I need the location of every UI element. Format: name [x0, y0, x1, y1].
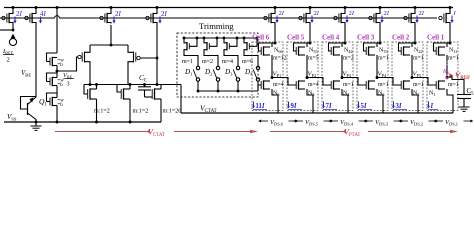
label N1 lower — [429, 91, 435, 98]
wire trim supply — [184, 37, 257, 39]
label 2I current MP3 — [112, 10, 121, 24]
label VDS,1 — [433, 119, 473, 128]
wire VSS rail — [4, 121, 161, 123]
svg-text:m=4: m=4 — [273, 82, 284, 88]
label Cell 1 — [427, 34, 445, 42]
transistor N3 lower (cell 3) — [366, 80, 375, 89]
label m=2 cell 4 upper — [343, 56, 354, 62]
svg-text:m=4: m=4 — [222, 59, 233, 65]
transistor MPc1 (cell 1 top) — [439, 6, 452, 23]
wire trim output bus — [197, 90, 258, 93]
transistor MT1 trim m=1 — [183, 37, 199, 55]
capacitor CC — [138, 85, 152, 98]
label N55 — [309, 48, 318, 55]
label 2I current MP4 — [158, 10, 167, 24]
wire VP4 to next gate — [377, 78, 401, 86]
label m=1 cell 3 upper — [378, 56, 389, 62]
svg-text:2: 2 — [7, 57, 10, 64]
label m=12 cell 6 upper — [273, 56, 287, 62]
transistor N44 (cell 4 upper) — [329, 43, 346, 56]
svg-text:m=1: m=1 — [378, 56, 389, 62]
svg-text:m=12: m=12 — [273, 56, 287, 62]
label VDS,6 — [258, 119, 298, 128]
label VCTAT red — [148, 128, 165, 139]
label 4I current MP2 — [39, 10, 47, 24]
svg-text:11I: 11I — [256, 103, 265, 110]
wire cell 6 source to chain — [272, 89, 278, 113]
label 2I current MP1 — [13, 10, 22, 24]
wire MP1 drain to node — [0, 24, 14, 32]
svg-text:m:1=2: m:1=2 — [133, 109, 149, 115]
transistor MN2 (m:1=2) — [121, 88, 130, 99]
wire MN1 diode loop — [84, 85, 88, 95]
svg-text:Cell 3: Cell 3 — [357, 34, 375, 42]
svg-text:Cell 1: Cell 1 — [427, 34, 445, 42]
svg-text:m=2: m=2 — [202, 59, 213, 65]
label VDS,4 — [328, 119, 368, 128]
label N44 — [344, 48, 353, 55]
wire cell 1 source to chain — [447, 89, 453, 113]
wire cell 4 source to chain — [342, 89, 348, 113]
capacitor CL — [457, 95, 471, 108]
wire cell 5 VP node — [306, 55, 309, 79]
label current 5 — [287, 102, 302, 111]
svg-text:Cell 2: Cell 2 — [392, 34, 410, 42]
switch D2 — [204, 55, 220, 91]
transistor MP1 (2I) — [2, 6, 15, 23]
label VP3 — [343, 71, 352, 79]
wire MN3 source — [160, 99, 162, 122]
svg-text:m=1: m=1 — [448, 56, 459, 62]
label Q1 — [39, 97, 47, 108]
label N11 — [449, 48, 457, 55]
transistor MS2 stack — [47, 73, 65, 88]
svg-text:m=1: m=1 — [413, 56, 424, 62]
label m=1 cell 2 lower — [413, 82, 424, 88]
label m=4 cell 5 lower — [308, 82, 319, 88]
transistor Q1 PNP — [21, 97, 38, 124]
svg-text:m=1: m=1 — [378, 82, 389, 88]
svg-text:2I: 2I — [384, 10, 390, 17]
wire VDD top rail — [4, 7, 453, 9]
wire MN1 source — [95, 99, 98, 123]
svg-text:7I: 7I — [326, 103, 332, 110]
wire stack to VSS — [56, 106, 59, 124]
label VP4 — [378, 71, 387, 79]
transistor MT4 trim m=6 — [243, 37, 259, 55]
label m=4 cell 6 lower — [273, 82, 284, 88]
switch D4 — [244, 55, 260, 91]
label m=1 cell 1 lower — [448, 82, 459, 88]
label 2I cell 5 — [310, 10, 319, 23]
wire cell 6 VP node — [271, 55, 274, 79]
wire MPc4 drain — [344, 24, 347, 45]
svg-text:2I: 2I — [314, 10, 320, 17]
wire VCTAT chain — [181, 112, 453, 114]
label D2 — [204, 68, 213, 77]
svg-text:Cell 4: Cell 4 — [322, 34, 340, 42]
svg-text:m:1=26: m:1=26 — [163, 109, 182, 115]
svg-text:Cell 5: Cell 5 — [287, 34, 305, 42]
wire MD2 gate to MP4 drain — [140, 57, 158, 60]
svg-text:m=1: m=1 — [413, 82, 424, 88]
svg-text:m=2: m=2 — [343, 56, 354, 62]
label N6 lower — [273, 91, 279, 98]
transistor N6 lower (cell 6) — [261, 80, 270, 89]
cell 3 box — [357, 42, 388, 111]
transistor N5 lower (cell 5) — [296, 80, 305, 89]
label I cell 1 — [450, 10, 456, 23]
wire MPc5 drain — [309, 24, 312, 45]
label m:1=2 MN2 — [133, 109, 149, 115]
wire amp output to VCTAT chain — [180, 85, 182, 114]
svg-text:m=1: m=1 — [182, 59, 193, 65]
svg-text:m=6: m=6 — [242, 59, 253, 65]
label D1 — [184, 68, 193, 77]
wire MN2 source — [129, 99, 132, 123]
cell 1 box — [427, 42, 458, 111]
wire VP1 to next gate — [272, 78, 296, 86]
svg-text:N22: N22 — [414, 48, 423, 55]
label m=1 trim — [182, 59, 193, 65]
svg-text:m:1=2: m:1=2 — [94, 109, 110, 115]
svg-text:2I: 2I — [349, 10, 355, 17]
wire trim bus to cell6 gate — [258, 85, 261, 91]
label N3 lower — [378, 91, 384, 98]
transistor MN1 (m:1=2) — [88, 88, 97, 99]
svg-text:3: 3 — [67, 81, 70, 88]
wire cell 3 VP node — [376, 55, 379, 79]
ground symbol VSS — [31, 122, 42, 130]
label VDS,3 — [363, 119, 403, 128]
label Cell 4 — [322, 34, 340, 42]
svg-text:N4: N4 — [343, 91, 350, 98]
wire cell 2 VP node — [411, 55, 414, 79]
label Trimming — [199, 21, 234, 31]
trimming block box — [177, 33, 258, 97]
label D4 — [244, 68, 253, 77]
svg-text:2I: 2I — [161, 10, 168, 18]
svg-text:2I: 2I — [419, 10, 425, 17]
wire MP4 drain line — [156, 24, 158, 85]
label VP5 — [413, 71, 422, 79]
label VDS,5 — [293, 119, 333, 128]
wire cell 5 source to chain — [307, 89, 313, 113]
wire cell 1 VP node — [446, 55, 449, 79]
wire stack trunk from VDD — [55, 6, 60, 53]
svg-text:N66: N66 — [274, 48, 283, 55]
svg-text:N55: N55 — [309, 48, 318, 55]
arrow VPTAT span — [270, 130, 458, 134]
wire VREF to CL — [447, 77, 464, 95]
label N5 lower — [308, 91, 314, 98]
label m=1 cell 4 lower — [343, 82, 354, 88]
cell 6 box — [252, 42, 283, 111]
wire MN2 drain — [129, 85, 131, 90]
wire MPc1 drain — [449, 24, 452, 45]
label 2I cell 3 — [380, 10, 389, 23]
cell 2 box — [392, 42, 423, 111]
switch D1 — [184, 55, 200, 91]
wire cell 3 source to chain — [377, 89, 383, 113]
transistor MS1 stack — [47, 53, 65, 68]
cell 5 box — [287, 42, 318, 111]
svg-text:m=4: m=4 — [308, 82, 319, 88]
svg-text:m=1: m=1 — [343, 82, 354, 88]
ground symbol CL — [459, 107, 470, 111]
switch D3 — [224, 55, 240, 91]
wire tail node — [90, 25, 128, 46]
label KA leakage arrow — [442, 61, 450, 80]
label VBE — [21, 69, 31, 78]
label Cell 6 — [252, 34, 270, 42]
label 2I cell 2 — [415, 10, 424, 23]
label 2I cell 4 — [345, 10, 354, 23]
svg-text:I: I — [430, 103, 434, 110]
label N22 — [414, 48, 423, 55]
transistor N1 lower (cell 1) — [436, 80, 445, 89]
wire MD1 gate to VBE/3 tap — [57, 57, 78, 71]
label current 2 — [392, 102, 407, 111]
label m:1=26 MN3 — [163, 109, 182, 115]
svg-text:9I: 9I — [291, 103, 297, 110]
wire MPc3 drain — [379, 24, 382, 45]
wire MN1 drain — [96, 85, 98, 90]
label N66 — [274, 48, 283, 55]
svg-text:2I: 2I — [279, 10, 285, 17]
label CL — [467, 87, 474, 97]
wire VBE node vertical — [35, 24, 37, 98]
label Cell 5 — [287, 34, 305, 42]
transistor MD1 diff left — [78, 45, 90, 83]
wire VP5 to next gate — [412, 78, 436, 86]
label m=2 trim — [202, 59, 213, 65]
svg-text:2I: 2I — [115, 10, 122, 18]
svg-text:N44: N44 — [344, 48, 353, 55]
label N33 — [379, 48, 388, 55]
label current 4 — [322, 102, 337, 111]
current source IREF/2 — [9, 34, 16, 46]
transistor MPc4 (cell 4 top) — [334, 6, 347, 23]
label m:1=2 MN1 — [94, 109, 110, 115]
wire VP2 to next gate — [307, 78, 331, 86]
label m=4 trim — [222, 59, 233, 65]
transistor MT2 trim m=2 — [203, 37, 219, 55]
transistor N55 (cell 5 upper) — [294, 43, 311, 56]
label VPTAT red — [344, 128, 360, 139]
wire stack seg1 — [56, 66, 59, 78]
transistor MP3 (2I tail) — [100, 6, 113, 23]
svg-text:Trimming: Trimming — [199, 21, 234, 31]
transistor MS3 stack — [47, 93, 65, 108]
svg-text:2I: 2I — [16, 10, 23, 18]
transistor MT3 trim m=4 — [223, 37, 239, 55]
wire MN3 drain — [160, 85, 162, 90]
label IREF/2 — [2, 48, 14, 64]
label N2 lower — [413, 91, 419, 98]
label m=1 cell 1 upper — [448, 56, 459, 62]
transistor MPc3 (cell 3 top) — [369, 6, 382, 23]
label current 3 — [357, 102, 372, 111]
label current 6 — [252, 102, 267, 111]
transistor N22 (cell 2 upper) — [399, 43, 416, 56]
wire cell 4 VP node — [341, 55, 344, 79]
wire MPc2 drain — [414, 24, 417, 45]
label m=1 cell 2 upper — [413, 56, 424, 62]
wire gate bias line — [0, 17, 437, 19]
label VREF — [450, 71, 471, 82]
label VP1 — [273, 71, 282, 79]
svg-text:m=1: m=1 — [448, 82, 459, 88]
label D3 — [224, 68, 233, 77]
label m=6 trim — [242, 59, 253, 65]
label VBE/3 — [63, 72, 74, 88]
label Cell 2 — [392, 34, 410, 42]
transistor N66 (cell 6 upper) — [259, 43, 276, 56]
label VCTAT node — [200, 104, 217, 115]
label Cell 3 — [357, 34, 375, 42]
label VDS,2 — [398, 119, 438, 128]
svg-text:KA: KA — [442, 69, 450, 76]
transistor N33 (cell 3 upper) — [364, 43, 381, 56]
wire MPc6 drain — [274, 24, 277, 45]
wire first stage node — [84, 83, 181, 86]
transistor MPc2 (cell 2 top) — [404, 6, 417, 23]
cell 4 box — [322, 42, 353, 111]
wire VP3 to next gate — [342, 78, 366, 86]
svg-text:Cell 6: Cell 6 — [252, 34, 270, 42]
wire stack seg2 — [56, 86, 58, 98]
transistor MP2 (4I) — [25, 6, 38, 23]
svg-text:m=5: m=5 — [308, 56, 319, 62]
label 2I cell 6 — [275, 10, 284, 23]
transistor MN3 (m:1=26) — [152, 88, 161, 99]
svg-text:N11: N11 — [449, 48, 457, 55]
label m=1 cell 3 lower — [378, 82, 389, 88]
svg-text:N33: N33 — [379, 48, 388, 55]
wire cell 2 source to chain — [412, 89, 418, 113]
label CC — [139, 74, 147, 83]
label m=5 cell 5 upper — [308, 56, 319, 62]
wire MN2 gate riser — [117, 85, 121, 93]
transistor N4 lower (cell 4) — [331, 80, 340, 89]
transistor N2 lower (cell 2) — [401, 80, 410, 89]
label VP2 — [308, 71, 317, 79]
label N4 lower — [343, 91, 350, 98]
transistor N11 (cell 1 upper) — [434, 43, 451, 56]
svg-text:5I: 5I — [361, 103, 367, 110]
transistor MPc6 (cell 6 top) — [264, 6, 277, 23]
svg-text:3I: 3I — [396, 103, 402, 110]
label current 1 — [427, 102, 438, 111]
svg-text:N1: N1 — [429, 91, 435, 98]
arrow VCTAT span — [55, 130, 258, 134]
transistor MPc5 (cell 5 top) — [299, 6, 312, 23]
label VSS — [7, 113, 17, 122]
transistor MD2 diff right — [128, 45, 140, 85]
transistor MP4 (2I output) — [146, 6, 159, 23]
